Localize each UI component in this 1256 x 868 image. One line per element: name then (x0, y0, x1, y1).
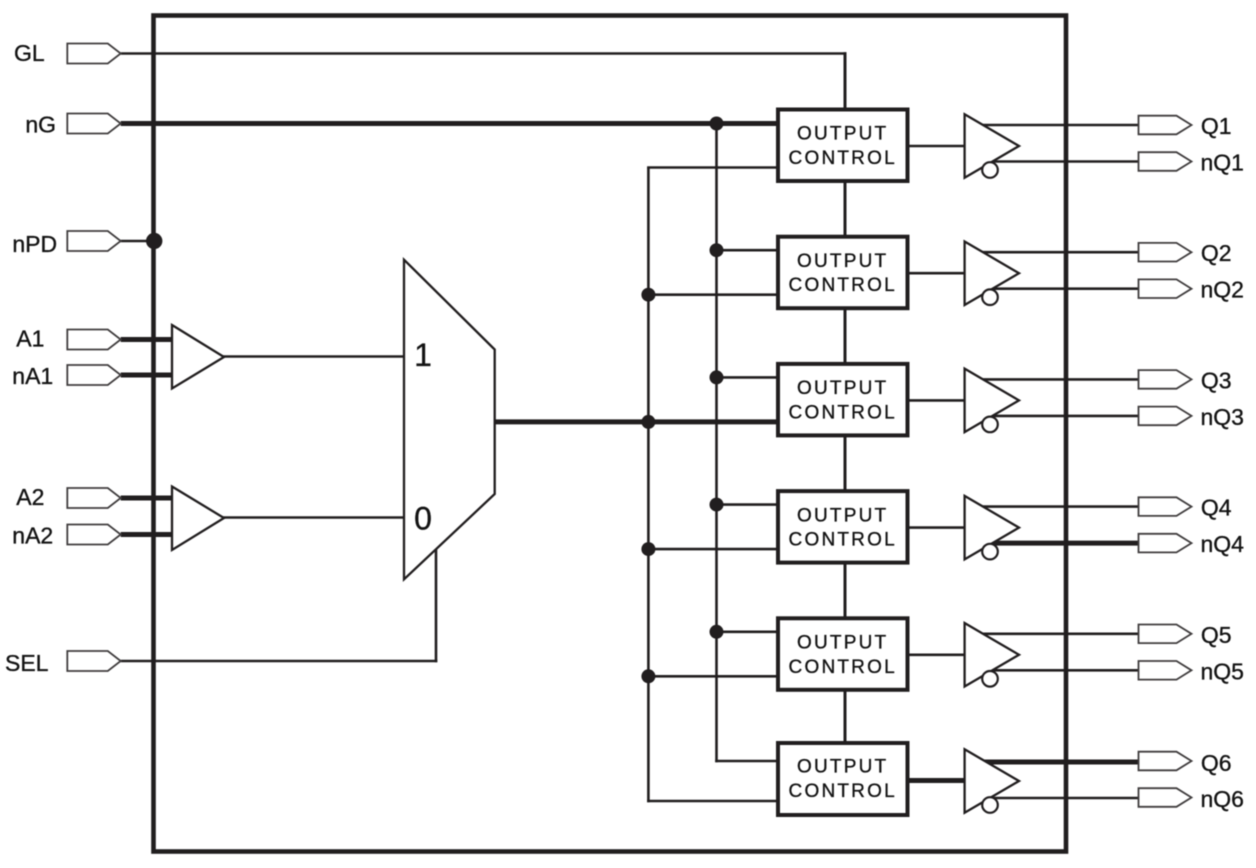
svg-text:nQ4: nQ4 (1201, 531, 1245, 557)
svg-text:OUTPUT: OUTPUT (797, 251, 888, 272)
svg-text:nQ1: nQ1 (1201, 150, 1244, 176)
svg-text:OUTPUT: OUTPUT (797, 633, 888, 654)
svg-text:CONTROL: CONTROL (789, 402, 897, 423)
svg-text:Q5: Q5 (1201, 622, 1232, 648)
svg-text:OUTPUT: OUTPUT (797, 378, 888, 399)
svg-text:CONTROL: CONTROL (789, 530, 897, 551)
svg-text:OUTPUT: OUTPUT (797, 124, 888, 145)
svg-text:0: 0 (414, 501, 432, 537)
svg-text:CONTROL: CONTROL (789, 781, 897, 802)
svg-text:nA1: nA1 (12, 363, 53, 389)
svg-text:Q6: Q6 (1201, 750, 1232, 776)
svg-text:SEL: SEL (5, 650, 49, 676)
svg-text:nQ3: nQ3 (1201, 404, 1244, 430)
svg-text:nQ2: nQ2 (1201, 277, 1244, 303)
svg-text:nQ5: nQ5 (1201, 658, 1244, 684)
svg-text:Q1: Q1 (1201, 113, 1232, 139)
svg-text:nQ6: nQ6 (1201, 786, 1244, 812)
svg-text:Q2: Q2 (1201, 240, 1232, 266)
svg-text:nG: nG (25, 112, 56, 138)
svg-text:OUTPUT: OUTPUT (797, 505, 888, 526)
svg-text:nPD: nPD (12, 231, 57, 257)
svg-text:nA2: nA2 (12, 523, 53, 549)
svg-text:CONTROL: CONTROL (789, 275, 897, 296)
svg-text:A1: A1 (16, 326, 44, 352)
svg-text:CONTROL: CONTROL (789, 657, 897, 678)
svg-text:A2: A2 (16, 484, 44, 510)
svg-text:CONTROL: CONTROL (789, 148, 897, 169)
svg-text:1: 1 (414, 337, 432, 373)
svg-text:Q3: Q3 (1201, 367, 1232, 393)
svg-text:OUTPUT: OUTPUT (797, 757, 888, 778)
svg-text:GL: GL (14, 40, 45, 66)
svg-text:Q4: Q4 (1201, 495, 1232, 521)
